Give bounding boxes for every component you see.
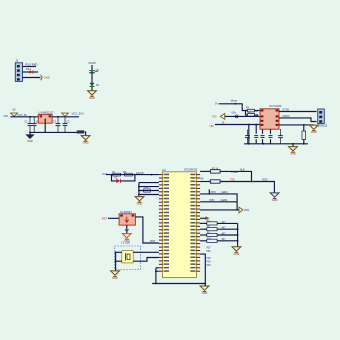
capacitor C10 bbox=[280, 130, 282, 136]
svg-text:TXD: TXD bbox=[230, 180, 235, 182]
capacitor C8 bbox=[261, 136, 265, 138]
svg-text:EA/VP: EA/VP bbox=[136, 172, 144, 175]
ground u2 bottom bbox=[200, 286, 209, 295]
diode D3 loop bbox=[112, 175, 135, 183]
svg-text:GND: GND bbox=[234, 252, 240, 256]
button S1 bbox=[119, 211, 135, 225]
ground below chain bbox=[88, 91, 97, 100]
wire r2 bbox=[200, 179, 274, 193]
capacitor C7 bbox=[254, 136, 258, 138]
svg-text:3V3: 3V3 bbox=[212, 115, 217, 118]
wire d3 bbox=[210, 121, 260, 128]
svg-text:RXD: RXD bbox=[262, 179, 267, 182]
svg-text:/ LED1: / LED1 bbox=[221, 192, 229, 194]
svg-text:J1: J1 bbox=[16, 59, 19, 63]
ground crystal bbox=[111, 271, 120, 280]
wire rr group bbox=[200, 220, 238, 246]
resistor R6 bbox=[201, 179, 221, 184]
svg-text:GND: GND bbox=[137, 202, 143, 206]
svg-text:U3 CH340: U3 CH340 bbox=[269, 104, 282, 108]
capacitor C11 on bus bbox=[144, 187, 151, 192]
node junction c1 bbox=[29, 116, 31, 118]
node junction gnd bbox=[29, 132, 31, 134]
svg-text:GND: GND bbox=[112, 276, 118, 280]
ground U3 rail bbox=[289, 144, 298, 156]
svg-text:GND: GND bbox=[83, 141, 89, 145]
IC U2 bbox=[159, 167, 200, 277]
power flag small red bbox=[200, 216, 209, 220]
wire U3 bottom loop bbox=[249, 125, 271, 144]
svg-text:GND: GND bbox=[290, 152, 296, 156]
ground button bbox=[122, 225, 131, 243]
IC U3 bbox=[260, 104, 282, 129]
diode D2 bbox=[90, 83, 100, 87]
wire reg out rail bbox=[52, 116, 79, 118]
power flag P2 bbox=[62, 113, 69, 116]
resistor R7 bbox=[246, 111, 258, 117]
ground r2 bbox=[270, 193, 279, 202]
power flag P1 bbox=[11, 109, 18, 117]
wire e-right3 rail bbox=[279, 124, 309, 126]
wire vchain bbox=[91, 65, 93, 91]
capacitor C3 bbox=[53, 117, 61, 133]
wire e-right2 bbox=[279, 115, 317, 122]
resistor R2 bbox=[123, 172, 133, 176]
ground G1 filled bbox=[26, 132, 34, 143]
ground rr bbox=[232, 247, 241, 256]
svg-text:5V: 5V bbox=[12, 109, 15, 112]
wire u2 bus left p2-p5 bbox=[138, 183, 159, 197]
svg-text:GND: GND bbox=[27, 139, 33, 143]
wire r3 bbox=[200, 189, 237, 202]
capacitor C1 bbox=[25, 117, 33, 133]
wire r5 + power flag right bbox=[200, 207, 249, 213]
svg-text:ALE: ALE bbox=[240, 168, 245, 171]
wire net3 + power flag bbox=[23, 75, 50, 80]
wire crystal left bbox=[115, 251, 122, 270]
svg-text:RST: RST bbox=[150, 240, 155, 243]
svg-text:/ LED2: / LED2 bbox=[220, 200, 228, 202]
resistor R3 bbox=[210, 169, 238, 174]
svg-text:STC89C52: STC89C52 bbox=[184, 167, 198, 171]
capacitor C9 bbox=[269, 136, 273, 138]
connector J1 bbox=[15, 59, 22, 82]
resistor R5 vertical bbox=[302, 124, 306, 144]
ground bus left bbox=[135, 197, 144, 206]
crystal Y1 bbox=[122, 251, 133, 263]
wire reg gnd pin bbox=[44, 123, 46, 132]
ground G2 bbox=[81, 136, 90, 145]
connector J2 bbox=[318, 109, 328, 127]
wire bottom rail bbox=[30, 131, 77, 133]
svg-text:UD+: UD+ bbox=[231, 112, 237, 115]
wire main rail bbox=[11, 116, 39, 118]
svg-text:GND: GND bbox=[89, 96, 95, 100]
wire r4 bbox=[200, 200, 237, 210]
svg-text:Y1 12M: Y1 12M bbox=[121, 240, 130, 244]
wire e-right1 bbox=[279, 108, 317, 111]
svg-text:GND: GND bbox=[202, 291, 208, 295]
regulator U1 bbox=[38, 111, 54, 124]
svg-text:GND: GND bbox=[272, 198, 278, 202]
power flag left D2 bbox=[212, 114, 225, 120]
svg-text:VCC5: VCC5 bbox=[88, 61, 96, 65]
svg-text:PSEN: PSEN bbox=[231, 171, 238, 174]
wire r1 bbox=[200, 168, 251, 181]
ferrite FB1 bbox=[77, 131, 85, 136]
svg-text:INT1: INT1 bbox=[209, 200, 215, 202]
wire bottom rail u2 bbox=[152, 283, 205, 285]
wire xtal1 bbox=[133, 251, 159, 253]
svg-text:INT0: INT0 bbox=[211, 192, 217, 194]
ground J2 bbox=[309, 125, 318, 134]
svg-text:P3.1: P3.1 bbox=[26, 68, 32, 71]
capacitor C4 bbox=[63, 117, 71, 133]
svg-text:GND: GND bbox=[311, 130, 317, 134]
capacitor C5 bbox=[89, 69, 99, 73]
wire bottom rail U3 bbox=[244, 143, 308, 145]
capacitor C2 bbox=[32, 117, 40, 133]
svg-text:XI: XI bbox=[222, 121, 225, 124]
svg-text:U1 AMS1117: U1 AMS1117 bbox=[39, 111, 54, 115]
dashed box crystal bbox=[115, 246, 141, 270]
svg-text:VCC: VCC bbox=[244, 208, 250, 212]
svg-text:5V: 5V bbox=[215, 103, 218, 106]
node junction c3 bbox=[57, 116, 59, 118]
wire u2 right bus down bbox=[200, 247, 211, 286]
wire net1 bbox=[23, 66, 37, 68]
svg-text:VCC_3V3: VCC_3V3 bbox=[72, 112, 84, 116]
svg-text:VIN: VIN bbox=[4, 114, 9, 118]
wire rst bbox=[108, 217, 119, 219]
svg-text:Vbus: Vbus bbox=[231, 99, 238, 103]
wire d2 bbox=[225, 112, 260, 118]
resistor R1 bbox=[112, 172, 120, 176]
svg-text:GND: GND bbox=[44, 76, 50, 80]
svg-text:UD-: UD- bbox=[210, 124, 215, 128]
capacitor C6 bbox=[247, 130, 249, 136]
svg-text:UTXD: UTXD bbox=[282, 108, 289, 111]
svg-text:RST: RST bbox=[102, 216, 108, 220]
wire button out bbox=[135, 217, 159, 243]
svg-text:P3.0 RXD: P3.0 RXD bbox=[26, 63, 38, 67]
diode D1 bbox=[23, 68, 39, 74]
wire u2 bl bbox=[155, 268, 159, 284]
resistor R4 bbox=[246, 108, 260, 113]
wire d1 bbox=[219, 104, 247, 111]
svg-text:URXD: URXD bbox=[282, 115, 289, 118]
wire xtal2 bbox=[133, 258, 159, 262]
wire u2 pin1 bbox=[106, 174, 159, 176]
svg-text:VCC_5V: VCC_5V bbox=[17, 113, 27, 117]
